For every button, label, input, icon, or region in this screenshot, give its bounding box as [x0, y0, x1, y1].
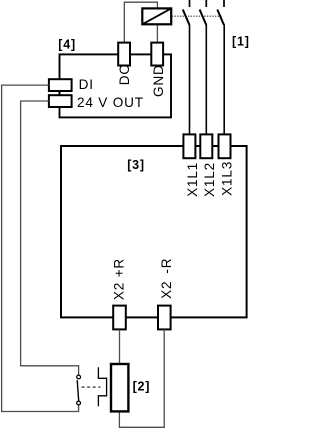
box 3 (drive): [61, 146, 247, 317]
wire DI terminal to bottom switch (lower contact): [2, 85, 79, 411]
switch pole 3 (L3): [217, 0, 224, 25]
thermal bracket on resistor: [98, 367, 106, 406]
thermal switch blade: [77, 380, 79, 401]
svg-text:GND: GND: [151, 64, 166, 97]
wire X2+R to braking resistor top: [119, 330, 121, 365]
switch pole 2 (L2): [200, 0, 207, 25]
svg-text:24 V OUT: 24 V OUT: [77, 95, 144, 110]
wire X2-R down, around to braking resistor bottom: [119, 330, 164, 428]
terminal X1L1: [183, 134, 195, 158]
thermal switch upper contact circle: [77, 375, 81, 379]
svg-text:X1L3: X1L3: [220, 161, 235, 196]
switch pole 1 (L1): [183, 0, 190, 25]
svg-text:[3]: [3]: [127, 158, 145, 172]
terminal X1L3: [219, 134, 231, 158]
svg-text:[4]: [4]: [58, 37, 76, 51]
svg-text:X1L1: X1L1: [185, 162, 200, 197]
svg-text:DO: DO: [117, 63, 132, 85]
terminal DI (upper left, horizontal): [49, 79, 72, 91]
wire contactor coil to GND terminal: [156, 24, 158, 43]
terminal 24V (lower left, horizontal): [49, 95, 72, 107]
box 4 (24V supply device): [60, 54, 172, 117]
svg-text:[2]: [2]: [133, 379, 151, 393]
contactor coil: [142, 8, 171, 24]
thermal switch lower contact circle: [77, 401, 81, 405]
braking resistor: [111, 364, 128, 411]
svg-text:[1]: [1]: [232, 35, 250, 49]
svg-text:DI: DI: [79, 77, 94, 92]
wire pole2 to X1L2: [205, 25, 207, 135]
terminal X2+R: [113, 306, 126, 330]
svg-text:X1L2: X1L2: [202, 162, 217, 197]
dashed mechanical link coil to switch blades: [172, 15, 222, 17]
terminal X1L2: [200, 134, 212, 158]
wire pole3 to X1L3: [223, 25, 225, 135]
wire 24V terminal to bottom switch (upper contact): [21, 101, 79, 375]
terminal DO: [118, 43, 130, 66]
terminal X2-R: [158, 306, 171, 330]
wire pole1 to X1L1: [189, 25, 191, 135]
dashed link switch to resistor bracket: [82, 386, 101, 388]
wire from DO terminal up and over to contactor coil: [124, 2, 157, 42]
terminal GND: [151, 43, 163, 66]
svg-text:X2 +R: X2 +R: [112, 258, 127, 300]
svg-text:X2 -R: X2 -R: [159, 258, 174, 299]
